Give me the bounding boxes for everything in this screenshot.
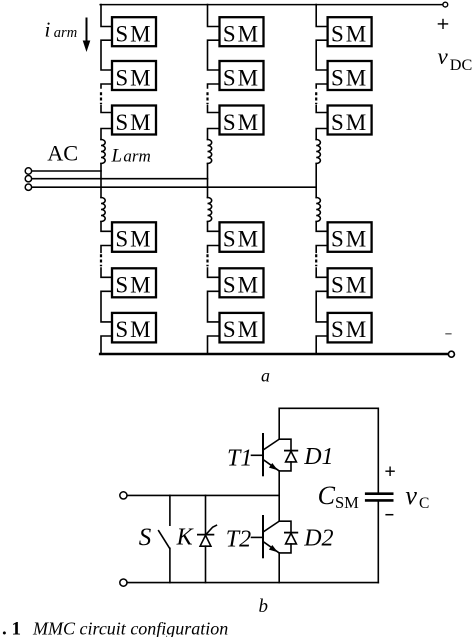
svg-text:K: K: [176, 524, 195, 550]
SM module leg1 lower 2: [112, 268, 156, 297]
wire leg1 into SM5: [101, 268, 112, 277]
SM module leg3 upper 3: [328, 106, 372, 135]
svg-text:SM: SM: [331, 65, 368, 90]
arrowhead T1 emitter: [269, 463, 278, 470]
svg-text:AC: AC: [47, 141, 78, 166]
wire leg2 drop from top bus: [208, 5, 220, 27]
wire leg2 SM6 exit to bottom bus: [208, 336, 220, 354]
wire mid rail: [127, 494, 279, 496]
label minus capacitor: [385, 514, 393, 516]
arrowhead T2 emitter: [269, 545, 278, 552]
transistor T1: [262, 434, 264, 475]
SM module leg2 upper 2: [220, 61, 264, 90]
svg-text:S: S: [139, 524, 152, 551]
svg-text:T2: T2: [226, 526, 251, 552]
svg-text:arm: arm: [123, 147, 150, 166]
label plus capacitor: [385, 467, 394, 477]
SM module leg3 upper 2: [328, 61, 372, 90]
wire capacitor to bottom rail: [377, 502, 379, 583]
wire leg1 drop from top bus: [101, 5, 112, 27]
wire T1 emitter to mid junction: [278, 471, 280, 521]
svg-text:SM: SM: [223, 22, 260, 47]
svg-text:v: v: [438, 44, 449, 69]
wire leg1 lower ellipsis dashed: [100, 254, 102, 266]
svg-text:SM: SM: [223, 110, 260, 135]
SM module leg2 upper 3: [220, 106, 264, 135]
wire leg3 into SM5: [316, 268, 327, 277]
node AC terminal 3: [25, 184, 31, 190]
svg-text:MMC circuit configuration: MMC circuit configuration: [32, 619, 228, 637]
wire AC phase 3: [32, 186, 316, 188]
wire top rail: [279, 408, 378, 492]
SM module leg3 lower 2: [328, 268, 372, 297]
svg-text:SM: SM: [115, 110, 152, 135]
capacitor CSM plates: [366, 492, 392, 495]
SM module leg1 lower 3: [112, 313, 156, 343]
wire leg2 SM3 exit to inductor: [208, 129, 220, 140]
wire leg3 into SM3: [316, 105, 327, 112]
wire leg3 SM3 exit to inductor: [316, 129, 327, 140]
wire leg1 SM6 exit to bottom bus: [101, 336, 112, 354]
wire leg1 into SM3: [101, 105, 112, 112]
SM module leg3 lower 3: [328, 313, 372, 343]
SM module leg1 lower 1: [112, 222, 156, 252]
wire AC phase 1: [32, 170, 101, 172]
wire leg3 SM2 exit: [316, 84, 327, 88]
node positive DC terminal: [443, 2, 448, 7]
wire leg3 SM6 exit to bottom bus: [316, 336, 327, 354]
SM module leg1 upper 3: [112, 106, 156, 135]
wire leg2 ellipsis dashed: [206, 92, 208, 104]
wire leg2 SM2 exit: [208, 84, 220, 88]
wire leg1 SM4 exit: [101, 246, 112, 253]
inductor upper leg2: [208, 140, 212, 164]
svg-text:v: v: [405, 481, 417, 510]
SM module leg1 upper 2: [112, 61, 156, 90]
svg-text:SM: SM: [223, 65, 260, 90]
inductor lower leg2: [208, 198, 212, 222]
wire leg1 SM5-SM6 link: [101, 291, 112, 322]
node SM terminal top-left: [120, 492, 127, 499]
wire leg3 mid vertical: [315, 164, 317, 198]
wire leg2 into SM3: [208, 105, 220, 112]
SM module leg2 lower 1: [220, 222, 264, 252]
svg-text:SM: SM: [331, 317, 368, 342]
wire leg1 SM3 exit to inductor: [101, 129, 112, 140]
SM module leg2 lower 3: [220, 313, 264, 343]
thyristor K: [205, 495, 207, 534]
wire bottom rail: [127, 582, 378, 584]
svg-text:b: b: [259, 596, 269, 617]
wire leg2 lower ellipsis dashed: [206, 254, 208, 266]
wire leg1 SM2 exit: [101, 84, 112, 88]
wire leg2 into SM5: [208, 268, 220, 277]
node AC terminal 1: [25, 168, 31, 174]
wire leg3 SM1-SM2 link: [316, 40, 327, 70]
svg-text:D2: D2: [303, 525, 333, 551]
wire leg1 SM1-SM2 link: [101, 40, 112, 70]
diode D2: [279, 521, 291, 532]
svg-text:SM: SM: [115, 273, 152, 298]
svg-text:SM: SM: [331, 227, 368, 252]
wire bottom DC bus: [100, 353, 448, 356]
label plus DC: [438, 19, 449, 29]
label minus DC: [445, 333, 451, 335]
wire leg2 SM5-SM6 link: [208, 291, 220, 322]
SM module leg3 upper 1: [328, 17, 372, 46]
wire leg3 drop from top bus: [316, 5, 327, 27]
SM module leg2 upper 1: [220, 17, 264, 46]
wire top DC bus: [100, 4, 443, 6]
wire T2 emitter to bottom rail: [278, 553, 280, 583]
node SM terminal bottom-left: [120, 579, 127, 586]
svg-text:arm: arm: [54, 25, 77, 41]
wire leg3 SM5-SM6 link: [316, 291, 327, 322]
svg-text:L: L: [111, 146, 123, 167]
diode D1: [279, 439, 291, 450]
svg-text:SM: SM: [331, 22, 368, 47]
switch S: [169, 495, 171, 525]
wire leg1 mid vertical: [100, 164, 102, 198]
svg-text:SM: SM: [223, 227, 260, 252]
svg-text:SM: SM: [335, 493, 359, 512]
SM module leg3 lower 1: [328, 222, 372, 252]
wire AC phase 2: [32, 178, 208, 180]
svg-text:. 1: . 1: [2, 619, 21, 637]
wire leg2 SM1-SM2 link: [208, 40, 220, 70]
SM module leg2 lower 2: [220, 268, 264, 297]
inductor lower leg1: [101, 198, 105, 222]
svg-text:C: C: [419, 495, 429, 512]
svg-text:a: a: [261, 365, 270, 385]
wire leg3 to SM4: [316, 222, 327, 232]
svg-text:SM: SM: [115, 65, 152, 90]
svg-text:D1: D1: [303, 444, 333, 470]
svg-text:SM: SM: [115, 22, 152, 47]
svg-text:SM: SM: [331, 273, 368, 298]
svg-text:DC: DC: [450, 56, 473, 74]
svg-text:i: i: [45, 18, 51, 42]
inductor Larm upper leg1: [101, 140, 105, 164]
svg-text:SM: SM: [331, 110, 368, 135]
transistor T2: [262, 516, 264, 557]
SM module leg1 upper 1: [112, 17, 156, 46]
current arrow i_arm: [83, 18, 91, 53]
node negative DC terminal: [448, 351, 454, 357]
wire leg1 to SM4: [101, 222, 112, 232]
wire leg3 ellipsis dashed: [315, 92, 317, 104]
wire leg2 mid vertical: [207, 164, 209, 198]
svg-text:SM: SM: [223, 273, 260, 298]
inductor upper leg3: [316, 140, 320, 164]
wire leg2 SM4 exit: [208, 246, 220, 253]
svg-text:T1: T1: [227, 445, 252, 471]
svg-text:SM: SM: [115, 317, 152, 342]
svg-text:SM: SM: [115, 227, 152, 252]
wire leg2 to SM4: [208, 222, 220, 232]
wire leg3 lower ellipsis dashed: [315, 254, 317, 266]
wire leg3 SM4 exit: [316, 246, 327, 253]
node AC terminal 2: [25, 176, 31, 182]
inductor lower leg3: [316, 198, 320, 222]
wire leg1 ellipsis dashed: [100, 92, 102, 104]
svg-text:C: C: [318, 481, 336, 510]
svg-text:SM: SM: [223, 317, 260, 342]
